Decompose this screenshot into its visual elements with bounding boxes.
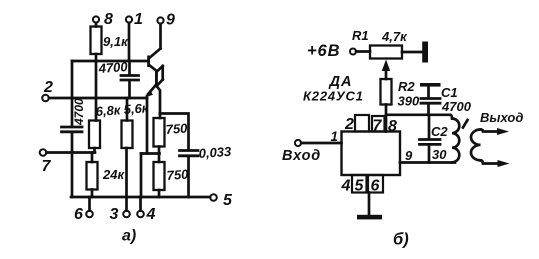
- core tick: [463, 120, 468, 128]
- svg-text:Выход: Выход: [480, 110, 523, 125]
- wire collector load: [160, 114, 189, 150]
- IC box DA K224US1: [342, 132, 401, 176]
- svg-text:9: 9: [166, 12, 175, 29]
- resistor 9,1k: [91, 27, 102, 55]
- resistor 5,6k: [122, 98, 133, 197]
- svg-text:6,8к: 6,8к: [95, 102, 122, 119]
- transistor T1: [147, 49, 160, 71]
- terminal +6V: [350, 49, 370, 55]
- svg-text:5: 5: [223, 192, 233, 209]
- wire to pin4: [140, 154, 143, 198]
- svg-text:4700: 4700: [441, 99, 472, 114]
- capacitor 4700 (base): [121, 61, 139, 98]
- terminal 1: [126, 16, 132, 61]
- svg-text:2: 2: [43, 79, 53, 96]
- pin tab 7: [372, 116, 385, 132]
- svg-text:6: 6: [74, 206, 83, 223]
- svg-text:4: 4: [146, 206, 156, 223]
- wire ground rail: [71, 196, 210, 199]
- terminal 6: [86, 197, 93, 217]
- terminal 7: [40, 149, 95, 156]
- resistor 750 (upper): [154, 118, 165, 147]
- svg-text:6: 6: [371, 178, 380, 195]
- svg-text:К224УС1: К224УС1: [303, 89, 364, 104]
- svg-text:750: 750: [165, 120, 188, 137]
- terminal 2: [42, 95, 147, 102]
- wire node8 horizontal: [386, 113, 450, 116]
- svg-text:R2: R2: [398, 79, 415, 94]
- capacitor 4700 vertical (left): [62, 127, 83, 197]
- terminal 5: [210, 194, 217, 201]
- svg-text:7: 7: [373, 118, 383, 135]
- svg-text:4700: 4700: [97, 59, 129, 76]
- wire base rail: [72, 60, 148, 63]
- svg-text:Вход: Вход: [282, 148, 321, 164]
- svg-text:4700: 4700: [72, 98, 86, 126]
- svg-text:7: 7: [42, 158, 52, 175]
- pin tab 6: [368, 175, 383, 193]
- svg-text:390: 390: [398, 94, 420, 109]
- svg-text:а): а): [122, 228, 136, 245]
- terminal 8: [93, 16, 99, 26]
- svg-text:750: 750: [166, 166, 189, 183]
- wire pin1 input: [295, 140, 342, 146]
- capacitor C2 30: [420, 115, 441, 163]
- svg-text:9,1к: 9,1к: [103, 34, 129, 49]
- output arrow top: [481, 128, 510, 135]
- terminal 3: [123, 197, 130, 217]
- wire left rail upper: [71, 61, 74, 126]
- wiper arrow R1: [382, 60, 390, 80]
- svg-text:3: 3: [110, 206, 119, 223]
- resistor 750 (lower): [154, 154, 165, 198]
- coil primary: [450, 115, 459, 163]
- output arrow bottom: [481, 160, 510, 167]
- pin tab 2: [355, 115, 369, 132]
- wire feedback: [141, 152, 160, 155]
- resistor R2 390: [381, 79, 392, 105]
- svg-text:1: 1: [331, 129, 339, 144]
- svg-text:С2: С2: [431, 124, 448, 139]
- svg-text:2: 2: [344, 116, 354, 133]
- pin tab 5: [352, 175, 367, 193]
- wire pin9: [400, 161, 455, 164]
- svg-text:24к: 24к: [102, 167, 125, 182]
- supply bar: [422, 42, 428, 63]
- svg-text:б): б): [393, 231, 409, 249]
- svg-text:0,033: 0,033: [198, 144, 232, 161]
- svg-text:1: 1: [134, 11, 143, 28]
- svg-text:4: 4: [341, 178, 351, 195]
- capacitor C1 bar: [420, 83, 441, 87]
- svg-text:8: 8: [104, 11, 113, 28]
- svg-text:5: 5: [355, 178, 365, 195]
- coil secondary: [471, 130, 481, 161]
- transistor T2: [146, 66, 163, 118]
- resistor 24k: [87, 153, 98, 198]
- resistor R1 4,7k: [370, 46, 402, 59]
- wire emitter node down: [146, 96, 149, 154]
- wire pin8: [385, 105, 388, 132]
- svg-text:4,7к: 4,7к: [381, 29, 408, 44]
- svg-text:С1: С1: [441, 85, 458, 100]
- capacitor 0,033: [180, 151, 199, 198]
- resistor 6,8k: [89, 121, 100, 153]
- wire between 750s: [158, 147, 161, 154]
- svg-text:R1: R1: [352, 28, 369, 43]
- capacitor C1 4700: [421, 87, 440, 115]
- svg-text:+6В: +6В: [307, 42, 340, 60]
- terminal 9: [157, 17, 163, 48]
- svg-text:30: 30: [432, 147, 447, 162]
- ground: [357, 193, 382, 220]
- wire R1 right: [402, 51, 423, 54]
- terminal 4: [137, 197, 144, 217]
- svg-text:9: 9: [405, 148, 413, 163]
- wire 91k column: [95, 54, 98, 121]
